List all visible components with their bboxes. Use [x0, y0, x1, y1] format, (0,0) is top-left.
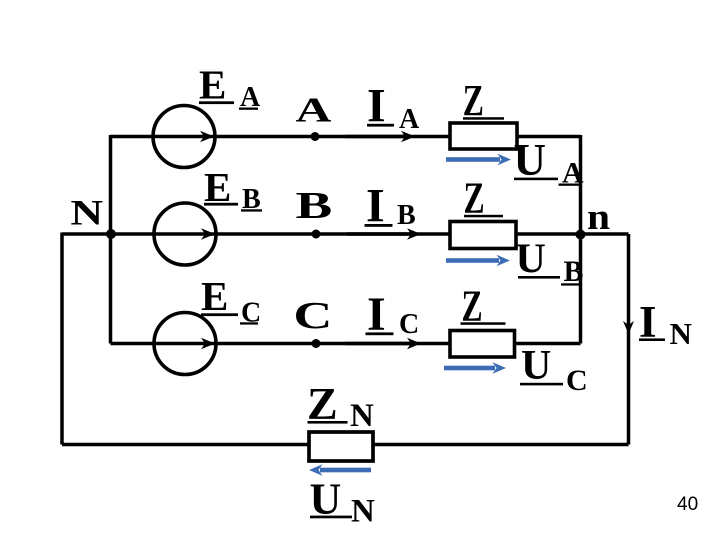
svg-text:U: U	[516, 237, 546, 283]
voltage arrow U_A (blue)	[446, 154, 511, 166]
svg-text:A: A	[296, 91, 332, 129]
svg-text:n: n	[587, 197, 610, 238]
svg-text:U: U	[521, 343, 551, 389]
label I_N	[639, 297, 692, 351]
svg-text:N: N	[70, 193, 103, 233]
node B dot	[312, 230, 321, 239]
svg-text:B: B	[397, 200, 416, 231]
voltage arrow U_N (blue, pointing left)	[309, 464, 371, 476]
svg-text:E: E	[199, 62, 226, 108]
label U_A	[514, 135, 585, 190]
impedance Z box phase B	[450, 222, 516, 249]
voltage arrow U_B (blue)	[446, 255, 510, 267]
node N junction dot	[106, 229, 116, 239]
wire: left outer vertical N-to-bottom	[60, 233, 64, 445]
label I_A	[367, 79, 420, 135]
source E_B arrowhead	[201, 228, 215, 239]
source E_B circle	[154, 203, 216, 265]
impedance Z box phase A	[450, 123, 517, 149]
current I_N arrowhead on right outer wire	[623, 321, 634, 334]
svg-text:N: N	[670, 316, 692, 351]
wire: bottom neutral horizontal	[62, 443, 629, 447]
svg-text:C: C	[566, 364, 588, 397]
svg-text:E: E	[201, 273, 228, 319]
wire: phase B horizontal	[62, 232, 629, 236]
label U_N	[310, 475, 376, 530]
label E_C	[201, 273, 261, 329]
wire: phase A horizontal	[110, 135, 581, 139]
label I_C	[366, 288, 420, 341]
current I_B arrow on phase B wire	[347, 228, 421, 239]
node A dot	[311, 132, 320, 141]
label Z phase B	[464, 175, 504, 223]
svg-text:C: C	[293, 295, 332, 337]
svg-text:N: N	[350, 398, 374, 434]
voltage arrow U_C (blue)	[444, 362, 506, 374]
label U_C	[520, 343, 588, 397]
source E_C circle	[154, 313, 216, 375]
svg-text:A: A	[399, 104, 420, 135]
source E_A arrowhead	[200, 131, 214, 142]
label E_B	[204, 164, 262, 215]
wire: left bus vertical A-B-C	[109, 135, 113, 344]
current I_A arrow on phase A wire	[345, 131, 415, 142]
svg-text:40: 40	[677, 494, 698, 515]
wire: right bus vertical Za-n-Zc	[579, 135, 583, 344]
label U_B	[516, 237, 584, 289]
node C dot	[312, 339, 321, 348]
label Z phase C	[461, 283, 506, 331]
source E_C arrowhead	[201, 338, 215, 349]
svg-text:B: B	[296, 185, 333, 227]
svg-text:U: U	[514, 135, 547, 185]
label E_A	[199, 62, 261, 114]
wire: phase C horizontal	[111, 342, 581, 346]
label Z_N	[307, 378, 374, 434]
label I_B	[365, 180, 416, 233]
current I_C arrow on phase C wire	[345, 338, 421, 349]
impedance Z_N box neutral	[309, 432, 373, 461]
impedance Z box phase C	[450, 331, 515, 358]
node n junction dot	[576, 230, 586, 240]
label Z phase A	[463, 77, 504, 125]
svg-text:B: B	[564, 255, 584, 288]
svg-text:N: N	[351, 494, 375, 530]
svg-text:C: C	[399, 309, 419, 340]
source E_A circle	[153, 106, 215, 168]
wire: right outer vertical n-to-bottom	[627, 234, 631, 445]
